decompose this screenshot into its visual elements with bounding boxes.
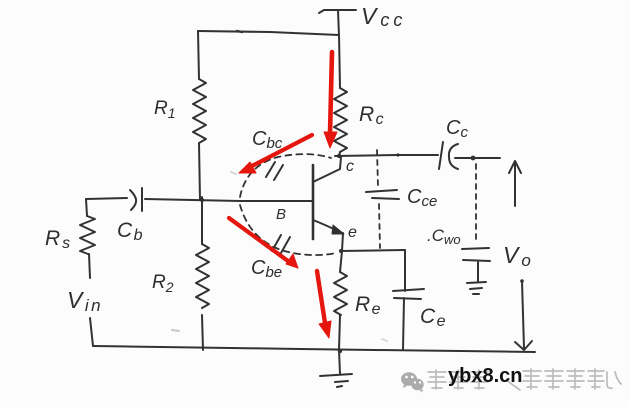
capacitor Cb	[130, 188, 142, 211]
resistor R1	[193, 79, 206, 143]
capacitor Cce dashed lead bottom	[379, 204, 380, 248]
capacitor Cc	[439, 142, 443, 169]
power Vcc symbol	[319, 10, 356, 36]
transistor emitter with arrow	[313, 220, 341, 233]
capacitor Cbe arc	[240, 205, 336, 255]
wire Rs top	[86, 199, 87, 216]
resistor Re	[334, 272, 347, 315]
wire R2 bottom	[202, 315, 203, 350]
red arrow emitter current	[317, 271, 325, 323]
wire R2 top	[201, 197, 203, 244]
capacitor Cbc marks	[266, 162, 283, 180]
svg-text:e: e	[348, 224, 357, 241]
smudge marks	[172, 172, 387, 341]
capacitor Cbc arc	[240, 154, 331, 197]
ground main	[320, 350, 352, 387]
red arrow Cbe	[229, 218, 288, 261]
svg-text:c: c	[346, 158, 354, 175]
ground below Cwo	[467, 282, 486, 294]
wire Rs bottom	[89, 254, 90, 278]
transistor collector	[313, 157, 341, 182]
wire emitter node to Re	[340, 251, 342, 272]
capacitor Cce	[366, 190, 399, 199]
capacitor Ce	[393, 289, 424, 299]
wire Re bottom	[339, 315, 340, 350]
watermark icon	[401, 372, 424, 392]
arrow Vo up	[509, 161, 521, 206]
red arrow Rc current	[229, 52, 337, 338]
wire Rc bottom to node c	[339, 152, 340, 157]
wire base	[145, 199, 313, 201]
node c	[337, 154, 341, 158]
wire R1 bottom	[199, 143, 200, 200]
capacitor Cbe marks	[272, 235, 290, 253]
svg-text:B: B	[276, 206, 286, 223]
wire top-left	[86, 198, 127, 199]
svg-text:ybx8.cn: ybx8.cn	[448, 365, 522, 387]
watermark gray text	[428, 369, 621, 390]
wire Ce bottom	[403, 298, 404, 349]
arrow Vo down right side	[515, 281, 532, 350]
wire top rail	[198, 31, 339, 35]
wire Vin bottom	[90, 318, 93, 346]
resistor R2	[196, 244, 209, 308]
wire emitter horizontal	[341, 250, 405, 251]
wire Ce top	[404, 250, 406, 291]
wire collector rail	[335, 155, 438, 156]
capacitor Cce dashed lead top	[377, 150, 378, 187]
wire emitter down	[342, 233, 343, 251]
capacitor Cwo	[462, 248, 490, 281]
transistor bar	[312, 165, 315, 239]
wire R1 top	[198, 31, 199, 79]
wire Rc top	[339, 35, 340, 88]
resistor Rs	[80, 216, 95, 254]
resistor Rc	[334, 88, 347, 152]
red arrow Cbc	[250, 135, 312, 167]
capacitor Cwo dashed lead	[475, 164, 477, 240]
wire bottom rail	[93, 346, 535, 352]
wire after Cc	[455, 157, 500, 159]
